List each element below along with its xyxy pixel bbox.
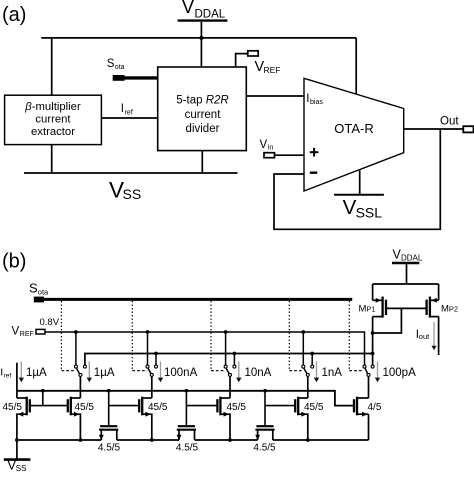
svg-text:45/5: 45/5	[75, 402, 95, 413]
node source M5	[306, 438, 310, 442]
node rail tie MS3	[263, 389, 267, 393]
node VREF b2	[74, 330, 78, 334]
label VSSL	[343, 196, 383, 221]
svg-text:OTA-R: OTA-R	[334, 121, 373, 136]
wire dump drop b5	[311, 354, 313, 366]
label minus input	[310, 171, 317, 173]
switch S6	[363, 365, 374, 376]
port Out	[463, 126, 473, 132]
switch S3	[146, 365, 158, 376]
label Vin	[260, 139, 274, 152]
svg-text:V: V	[260, 139, 268, 151]
label S_ota	[107, 58, 125, 71]
svg-text:ref: ref	[4, 373, 12, 380]
wire VSS rail	[24, 172, 238, 174]
wire top rail	[41, 37, 356, 39]
svg-text:REF: REF	[264, 65, 281, 75]
svg-text:100nA: 100nA	[164, 367, 198, 379]
wire branch2 pole	[79, 376, 81, 398]
svg-text:1nA: 1nA	[322, 367, 343, 379]
wire R2R box to VSS rail	[201, 151, 203, 173]
wire OTA output	[404, 128, 464, 130]
wire ladder node B	[117, 439, 179, 441]
svg-text:(a): (a)	[2, 4, 26, 26]
wire dashed control branch2	[61, 370, 75, 372]
current arrow b3	[158, 362, 163, 383]
wire Ibias	[246, 95, 304, 97]
svg-text:REF: REF	[20, 331, 34, 338]
wire S_ota thick	[125, 76, 158, 79]
ground VSSL bar	[334, 194, 384, 196]
switch S2	[74, 365, 86, 376]
wire beta box to VSS rail	[51, 145, 53, 173]
wire branch5 pole	[307, 376, 309, 398]
svg-text:S: S	[107, 58, 115, 70]
svg-text:extractor: extractor	[31, 126, 75, 138]
svg-text:(b): (b)	[2, 251, 26, 273]
svg-text:MP1: MP1	[359, 304, 376, 315]
svg-text:current: current	[185, 109, 222, 121]
svg-text:V: V	[182, 0, 194, 17]
ground VSS bar	[4, 458, 31, 461]
label Iref	[121, 103, 133, 117]
svg-text:45/5: 45/5	[227, 402, 247, 413]
svg-text:5-tap R2R: 5-tap R2R	[176, 95, 228, 107]
wire gate tie M1M2	[42, 391, 44, 406]
wire S_ota bus	[44, 298, 352, 301]
svg-text:Out: Out	[440, 116, 459, 128]
wire VREF drop b4	[225, 332, 227, 365]
node dump MP1	[371, 352, 375, 356]
block beta-multiplier current extractor	[5, 95, 102, 144]
wire VDDAL stem (b)	[406, 263, 408, 284]
wire VREF drop b5	[302, 332, 304, 365]
svg-text:1µA: 1µA	[94, 367, 115, 379]
supply symbol V_DDAL	[178, 0, 228, 21]
wire OTA bottom stem	[359, 170, 361, 194]
wire VDDAL stem	[200, 22, 202, 67]
wire gate rail	[17, 391, 354, 406]
pad S_ota	[34, 297, 44, 303]
wire dotted control branch2	[60, 301, 62, 371]
wire ladder node A	[17, 439, 101, 441]
current arrow Iout	[432, 322, 437, 350]
svg-text:ota: ota	[38, 288, 49, 297]
node rail tie MS2	[185, 389, 189, 393]
svg-text:current: current	[35, 113, 71, 125]
wire dotted control branch3	[131, 301, 133, 371]
wire dump drop b4	[233, 354, 235, 366]
svg-text:out: out	[419, 332, 430, 341]
transistor M5 45/5	[265, 397, 308, 440]
current arrow b1	[19, 362, 24, 383]
node source M3	[150, 438, 154, 442]
label S_ota	[29, 281, 49, 297]
label VREF	[255, 59, 281, 75]
label Iref	[0, 367, 11, 380]
svg-text:V: V	[343, 196, 357, 219]
wire branch4 pole	[229, 376, 231, 398]
supply symbol VDDAL (b)	[392, 248, 423, 264]
svg-text:1µA: 1µA	[26, 367, 47, 379]
wire branch3 pole	[151, 376, 153, 398]
wire dotted control branch6	[348, 301, 350, 371]
transistor M3 45/5	[109, 397, 152, 440]
node rail tie M1M2	[41, 389, 45, 393]
wire dashed control branch3	[132, 370, 147, 372]
node source M2	[79, 438, 83, 442]
wire feedback loop	[274, 129, 440, 229]
wire dump bus	[85, 354, 373, 366]
node MP1 drain diode	[371, 331, 375, 335]
node source M4	[228, 438, 232, 442]
node dump b4	[233, 352, 237, 356]
port VREF	[248, 51, 258, 56]
wire VREF drop b2	[75, 332, 77, 365]
node rail tie MS1	[107, 389, 111, 393]
node VREF b3	[146, 330, 150, 334]
svg-text:DDAL: DDAL	[401, 253, 423, 262]
wire ladder node C	[195, 439, 258, 441]
label Iout	[416, 329, 430, 341]
svg-text:bias: bias	[310, 99, 323, 106]
pad S_ota	[113, 75, 125, 81]
port Vin	[264, 153, 275, 158]
wire mirror top	[373, 283, 439, 285]
node VREF b4	[224, 330, 228, 334]
switch S5	[302, 365, 314, 376]
svg-text:4.5/5: 4.5/5	[98, 443, 121, 454]
svg-text:4.5/5: 4.5/5	[176, 443, 199, 454]
svg-text:4.5/5: 4.5/5	[253, 443, 276, 454]
svg-text:divider: divider	[186, 123, 220, 135]
transistor MS3 4.5/5	[255, 391, 274, 440]
svg-text:SSL: SSL	[356, 205, 383, 221]
label plus input	[310, 148, 319, 157]
wire diode connection MP1	[373, 308, 402, 333]
label VREF	[12, 325, 34, 338]
current arrow b6	[375, 362, 380, 383]
node source M1	[15, 438, 19, 442]
wire dashed control branch5	[289, 370, 303, 372]
svg-text:V: V	[12, 325, 20, 337]
wire ladder node D	[273, 439, 369, 441]
label VSS	[109, 177, 141, 202]
block 5-tap R2R current divider	[158, 67, 247, 151]
wire mirror gates	[386, 307, 427, 309]
wire dashed control branch6	[349, 370, 364, 372]
port VREF	[36, 329, 45, 334]
op-amp OTA-R body	[304, 78, 404, 191]
svg-text:SS: SS	[123, 186, 142, 202]
node VDDAL-rail junction	[199, 36, 203, 40]
node dump b3	[154, 352, 158, 356]
wire dump drop b3	[155, 354, 157, 366]
svg-text:10nA: 10nA	[245, 367, 272, 379]
svg-text:45/5: 45/5	[304, 402, 324, 413]
svg-text:β-multiplier: β-multiplier	[24, 101, 81, 113]
wire ground stem	[16, 440, 18, 460]
transistor MS1 4.5/5	[99, 391, 118, 440]
svg-text:S: S	[29, 281, 38, 296]
node dump b5	[310, 352, 314, 356]
transistor MP1	[373, 284, 386, 365]
wire Vin to plus input	[275, 154, 305, 156]
svg-text:in: in	[268, 145, 274, 152]
current arrow b4	[236, 362, 241, 383]
wire OTA top stem	[355, 38, 357, 95]
transistor M2 45/5	[43, 397, 81, 440]
svg-text:ota: ota	[115, 64, 125, 71]
transistor M1 45/5	[17, 397, 43, 440]
wire Iref	[101, 117, 157, 119]
current arrow b2	[87, 362, 92, 383]
wire VREF stub	[236, 54, 248, 67]
svg-text:45/5: 45/5	[3, 402, 23, 413]
switch S4	[224, 365, 236, 376]
wire VREF drop b3	[147, 332, 149, 365]
wire branch6 pole	[368, 376, 370, 398]
transistor M4 45/5	[186, 397, 230, 440]
svg-text:SS: SS	[16, 464, 27, 472]
wire branch1 input	[16, 363, 18, 398]
transistor M6 4/5	[354, 397, 369, 440]
wire beta box to rail	[51, 38, 53, 95]
svg-text:0.8V: 0.8V	[40, 317, 60, 328]
wire dotted control branch5	[288, 301, 290, 371]
svg-text:4/5: 4/5	[368, 402, 382, 413]
transistor MS2 4.5/5	[177, 391, 196, 440]
svg-text:45/5: 45/5	[148, 402, 168, 413]
svg-text:ref: ref	[125, 110, 133, 117]
label VSS (b)	[7, 458, 26, 474]
wire dotted control branch4	[210, 301, 212, 371]
svg-text:MP2: MP2	[441, 304, 458, 315]
current arrow b5	[314, 362, 319, 383]
svg-text:DDAL: DDAL	[195, 9, 226, 21]
label Ibias	[306, 93, 323, 106]
svg-text:I: I	[121, 103, 124, 115]
transistor MP2	[427, 284, 439, 355]
wire VREF bus	[45, 332, 365, 365]
svg-text:100pA: 100pA	[383, 367, 417, 379]
node VREF b5	[301, 330, 305, 334]
wire dashed control branch4	[211, 370, 225, 372]
